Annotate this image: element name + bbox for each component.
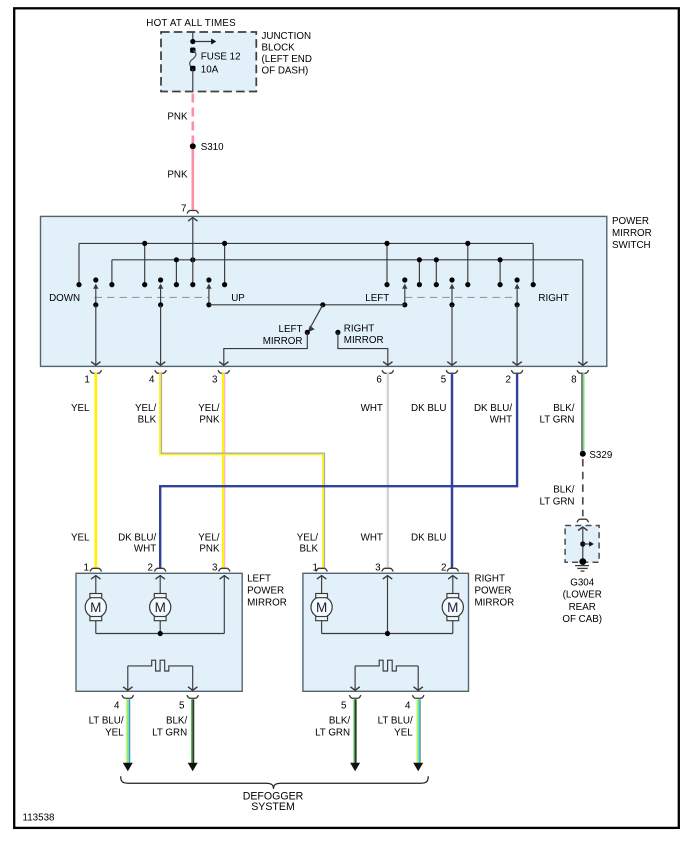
- svg-text:YEL/: YEL/: [198, 403, 220, 414]
- svg-text:113538: 113538: [23, 813, 56, 824]
- svg-text:1: 1: [84, 374, 89, 385]
- svg-text:LEFT: LEFT: [279, 324, 303, 335]
- svg-text:BLK/: BLK/: [553, 484, 575, 495]
- svg-text:YEL: YEL: [71, 533, 90, 544]
- svg-text:7: 7: [181, 203, 186, 214]
- svg-text:MIRROR: MIRROR: [263, 336, 303, 347]
- svg-text:RIGHT: RIGHT: [475, 573, 505, 584]
- svg-text:DK BLU/: DK BLU/: [474, 403, 512, 414]
- svg-text:DK BLU: DK BLU: [411, 403, 446, 414]
- svg-text:RIGHT: RIGHT: [538, 293, 568, 304]
- svg-text:YEL: YEL: [71, 403, 90, 414]
- svg-text:DK BLU/: DK BLU/: [118, 533, 156, 544]
- svg-text:(LOWER: (LOWER: [563, 590, 602, 601]
- svg-text:6: 6: [376, 374, 382, 385]
- svg-text:1: 1: [84, 562, 89, 573]
- svg-text:YEL/: YEL/: [198, 533, 220, 544]
- svg-text:UP: UP: [231, 293, 245, 304]
- svg-text:LT GRN: LT GRN: [152, 727, 187, 738]
- svg-text:YEL: YEL: [394, 727, 413, 738]
- svg-text:(LEFT END: (LEFT END: [262, 54, 312, 65]
- svg-text:S329: S329: [589, 450, 612, 461]
- svg-text:4: 4: [149, 374, 155, 385]
- svg-text:POWER: POWER: [247, 585, 284, 596]
- svg-text:3: 3: [212, 562, 218, 573]
- svg-text:2: 2: [148, 562, 153, 573]
- svg-text:POWER: POWER: [612, 216, 649, 227]
- svg-text:DK BLU: DK BLU: [411, 533, 446, 544]
- svg-text:LEFT: LEFT: [247, 573, 271, 584]
- svg-text:REAR: REAR: [569, 602, 596, 613]
- svg-text:POWER: POWER: [475, 585, 512, 596]
- svg-text:WHT: WHT: [134, 544, 156, 555]
- svg-text:YEL/: YEL/: [135, 403, 157, 414]
- svg-text:BLK: BLK: [138, 415, 157, 426]
- svg-text:PNK: PNK: [167, 169, 188, 180]
- svg-text:SYSTEM: SYSTEM: [251, 801, 295, 813]
- svg-text:3: 3: [212, 374, 218, 385]
- svg-text:SWITCH: SWITCH: [612, 240, 651, 251]
- svg-text:JUNCTION: JUNCTION: [262, 31, 312, 42]
- svg-text:3: 3: [375, 562, 381, 573]
- svg-text:5: 5: [441, 374, 447, 385]
- svg-text:LEFT: LEFT: [365, 293, 389, 304]
- svg-text:PNK: PNK: [167, 111, 188, 122]
- svg-text:MIRROR: MIRROR: [344, 335, 384, 346]
- svg-text:S310: S310: [201, 142, 224, 153]
- svg-text:YEL/: YEL/: [297, 533, 319, 544]
- svg-text:10A: 10A: [201, 65, 219, 76]
- svg-text:BLOCK: BLOCK: [262, 43, 296, 54]
- svg-text:RIGHT: RIGHT: [344, 324, 374, 335]
- svg-text:PNK: PNK: [199, 544, 220, 555]
- svg-text:MIRROR: MIRROR: [247, 597, 287, 608]
- svg-text:G304: G304: [570, 578, 595, 589]
- svg-text:1: 1: [313, 562, 318, 573]
- svg-text:M: M: [155, 600, 166, 615]
- svg-text:BLK/: BLK/: [329, 716, 351, 727]
- svg-text:WHT: WHT: [361, 533, 383, 544]
- svg-text:WHT: WHT: [361, 403, 383, 414]
- svg-text:PNK: PNK: [199, 415, 220, 426]
- svg-text:M: M: [90, 600, 101, 615]
- svg-text:BLK/: BLK/: [553, 403, 575, 414]
- svg-text:MIRROR: MIRROR: [475, 597, 515, 608]
- svg-text:MIRROR: MIRROR: [612, 228, 652, 239]
- svg-text:BLK/: BLK/: [166, 716, 188, 727]
- svg-text:LT GRN: LT GRN: [539, 497, 574, 508]
- svg-text:BLK: BLK: [299, 544, 318, 555]
- svg-text:YEL: YEL: [105, 727, 124, 738]
- svg-text:4: 4: [114, 701, 120, 712]
- svg-text:WHT: WHT: [490, 415, 512, 426]
- svg-text:DOWN: DOWN: [49, 293, 80, 304]
- svg-text:LT GRN: LT GRN: [315, 727, 350, 738]
- svg-text:LT GRN: LT GRN: [539, 415, 574, 426]
- svg-text:M: M: [447, 600, 458, 615]
- svg-text:M: M: [316, 600, 327, 615]
- svg-text:OF CAB): OF CAB): [562, 614, 602, 625]
- svg-text:5: 5: [341, 701, 347, 712]
- svg-text:FUSE 12: FUSE 12: [201, 51, 241, 62]
- svg-text:4: 4: [405, 701, 411, 712]
- svg-text:LT BLU/: LT BLU/: [378, 716, 413, 727]
- svg-text:OF DASH): OF DASH): [262, 66, 309, 77]
- svg-text:HOT AT ALL TIMES: HOT AT ALL TIMES: [146, 18, 236, 29]
- svg-text:2: 2: [441, 562, 446, 573]
- svg-text:8: 8: [571, 374, 577, 385]
- svg-text:LT BLU/: LT BLU/: [89, 716, 124, 727]
- svg-text:5: 5: [179, 701, 185, 712]
- svg-text:2: 2: [506, 374, 511, 385]
